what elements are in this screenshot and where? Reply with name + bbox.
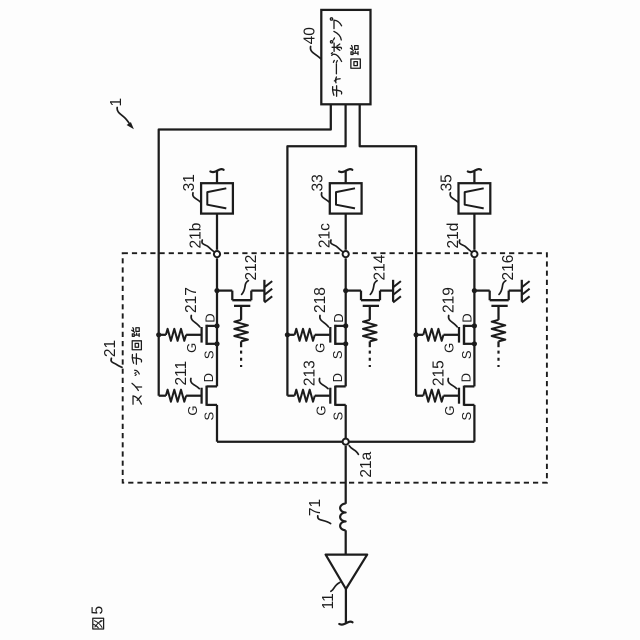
label 35 — [438, 174, 458, 202]
svg-text:S: S — [459, 350, 474, 359]
resistor: gate resistor of 213 — [287, 390, 329, 402]
svg-text:D: D — [460, 313, 475, 322]
wire: node 21d down main line — [473, 258, 475, 441]
label スイッチ回路 — [132, 328, 142, 405]
svg-text:215: 215 — [430, 360, 447, 386]
svg-text:G: G — [184, 343, 199, 353]
svg-text:G: G — [314, 406, 329, 416]
junction: S of 219 — [472, 341, 477, 346]
svg-text:5: 5 — [90, 606, 107, 615]
svg-text:71: 71 — [307, 499, 324, 516]
wire: charge pump output 1 to branch-1 gate bus — [159, 104, 331, 395]
svg-text:33: 33 — [310, 174, 327, 191]
transistor 219 (bypass FET) — [459, 325, 474, 345]
resistor: gate resistor of 214 — [363, 320, 377, 347]
transistor 217 (bypass FET) — [202, 325, 217, 345]
svg-text:G: G — [442, 406, 457, 416]
resistor: gate resistor of 215 — [416, 390, 458, 402]
svg-text:216: 216 — [500, 255, 517, 281]
junction: D of 218 — [343, 323, 348, 328]
svg-text:G: G — [313, 343, 328, 353]
label 216 — [499, 255, 517, 295]
wire: amplifier 11 output with break mark — [339, 589, 352, 625]
dotted control lead of 212 — [240, 351, 242, 367]
node 21c (terminal circle) — [343, 251, 349, 257]
wire: driver 35 to node 21d — [473, 214, 475, 250]
label 213 — [302, 360, 328, 388]
svg-text:S: S — [202, 350, 217, 359]
svg-text:S: S — [330, 350, 345, 359]
inductor 71 — [340, 504, 346, 531]
wire: driver 31 to node 21b — [216, 214, 218, 250]
label 217 — [183, 287, 200, 327]
node 21d (terminal circle) — [471, 251, 477, 257]
svg-text:217: 217 — [183, 287, 200, 313]
label 21b — [188, 223, 215, 252]
junction: D of 219 — [472, 323, 477, 328]
junction: gate bus tap for 218 — [285, 332, 290, 337]
label 214 — [370, 254, 388, 294]
svg-text:40: 40 — [301, 27, 318, 45]
junction: shunt tap on main line — [214, 288, 219, 293]
wire: node 21c down main line — [345, 258, 347, 441]
label 11 — [320, 582, 340, 609]
label 211 — [173, 361, 199, 389]
wire: charge pump output 3 to branch-3 gate bus — [360, 104, 416, 395]
wire break mark above driver 33 — [339, 169, 352, 183]
wire break mark above driver 31 — [210, 169, 223, 183]
svg-text:S: S — [459, 412, 474, 421]
node 21a (terminal circle) — [343, 439, 349, 445]
driver block 33 (pulse icon) — [330, 183, 362, 213]
transistor 213 (series FET) — [330, 386, 345, 406]
op-amp / amplifier 11 (triangle) — [326, 555, 368, 589]
charge pump circuit block 40 (チャージポンプ回路) — [321, 10, 370, 104]
wire: charge pump output 2 to branch-2 gate bus — [287, 104, 345, 395]
label 219 — [441, 287, 458, 327]
junction: shunt tap on main line — [343, 288, 348, 293]
junction: gate bus tap for 217 — [156, 332, 161, 337]
label 218 — [312, 287, 329, 327]
driver block 31 (pulse icon) — [201, 183, 233, 213]
svg-text:G: G — [441, 343, 456, 353]
ground (body of 212) — [264, 280, 272, 303]
transistor 218 (bypass FET) — [330, 325, 345, 345]
overall reference label 1 with leader arrow — [108, 98, 134, 129]
svg-text:218: 218 — [312, 287, 329, 313]
resistor: gate resistor of 212 — [234, 320, 248, 347]
svg-text:11: 11 — [320, 593, 337, 609]
wire: common output bus — [217, 441, 474, 443]
junction: S of 218 — [343, 341, 348, 346]
resistor: gate resistor of 218 — [287, 329, 329, 341]
svg-text:213: 213 — [302, 360, 319, 386]
wire: node 21b down main line — [216, 258, 218, 441]
transistor 211 (series FET) — [202, 386, 217, 406]
label 21 — [102, 340, 122, 367]
label 21a — [349, 446, 375, 478]
svg-text:1: 1 — [108, 98, 125, 107]
svg-text:S: S — [202, 412, 217, 421]
junction: shunt tap on main line — [472, 288, 477, 293]
dotted control lead of 216 — [497, 351, 499, 367]
driver block 35 (pulse icon) — [459, 183, 491, 213]
resistor: gate resistor of 216 — [492, 320, 506, 347]
label 212 — [242, 255, 260, 295]
svg-text:G: G — [185, 406, 200, 416]
svg-text:35: 35 — [438, 174, 455, 191]
svg-text:D: D — [459, 373, 474, 382]
svg-text:S: S — [330, 412, 345, 421]
junction: S of 217 — [214, 341, 219, 346]
svg-text:21: 21 — [102, 340, 119, 357]
svg-text:D: D — [201, 373, 216, 382]
resistor: gate resistor of 217 — [159, 329, 201, 341]
svg-text:21c: 21c — [316, 223, 333, 248]
resistor: gate resistor of 219 — [416, 329, 458, 341]
ground (body of 214) — [393, 280, 401, 303]
svg-text:212: 212 — [243, 255, 260, 281]
svg-text:21b: 21b — [188, 223, 205, 249]
junction: gate bus tap for 219 — [414, 332, 419, 337]
svg-text:D: D — [202, 313, 217, 322]
label 33 — [310, 174, 330, 202]
transistor 212 (shunt FET) — [217, 291, 264, 320]
label 71 — [307, 499, 331, 524]
transistor 214 (shunt FET) — [346, 291, 393, 320]
label 215 — [430, 360, 456, 388]
resistor: gate resistor of 211 — [159, 390, 201, 402]
svg-text:21d: 21d — [445, 223, 462, 249]
figure label 図5 — [90, 606, 107, 629]
wire break mark above driver 35 — [468, 169, 481, 183]
svg-text:21a: 21a — [358, 451, 375, 477]
wire: driver 33 to node 21c — [345, 214, 347, 250]
svg-text:31: 31 — [181, 174, 198, 191]
wire: inductor 71 to amplifier 11 — [345, 530, 347, 554]
ground (body of 216) — [522, 280, 530, 303]
wire: node 21a to inductor 71 — [345, 446, 347, 504]
transistor 216 (shunt FET) — [474, 291, 521, 320]
dotted control lead of 214 — [369, 351, 371, 367]
svg-text:211: 211 — [173, 361, 190, 386]
label 31 — [181, 174, 201, 202]
transistor 215 (series FET) — [459, 386, 474, 406]
label 21d — [445, 223, 472, 252]
label 40 — [301, 27, 321, 59]
svg-text:D: D — [331, 313, 346, 322]
switch circuit dashed box 21 (スイッチ回路) — [123, 253, 547, 483]
node 21b (terminal circle) — [214, 251, 220, 257]
svg-text:214: 214 — [372, 254, 389, 280]
svg-text:219: 219 — [441, 287, 458, 313]
junction: D of 217 — [214, 323, 219, 328]
label 21c — [316, 223, 343, 252]
svg-text:D: D — [330, 373, 345, 382]
